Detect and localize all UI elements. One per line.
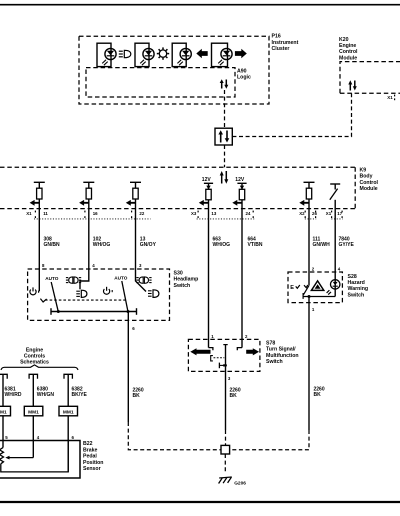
svg-text:Controls: Controls [24,354,45,360]
svg-text:Control: Control [339,49,358,55]
svg-text:2: 2 [245,334,248,339]
svg-text:X1: X1 [26,211,32,216]
svg-text:22: 22 [139,211,144,216]
svg-text:12V: 12V [235,177,245,183]
svg-text:AUTO: AUTO [114,275,128,280]
svg-text:Multifunction: Multifunction [266,353,299,359]
svg-text:Cluster: Cluster [272,46,290,52]
svg-text:26: 26 [312,211,317,216]
svg-text:4: 4 [37,435,40,440]
svg-text:4: 4 [92,263,95,268]
svg-text:P16: P16 [272,34,281,40]
svg-text:X3: X3 [191,211,197,216]
svg-text:GN/OY: GN/OY [140,242,157,248]
svg-text:Module: Module [339,55,357,61]
svg-text:12V: 12V [202,177,212,183]
svg-text:11: 11 [43,211,48,216]
svg-text:Logic: Logic [237,75,251,81]
svg-text:WH/GN: WH/GN [37,392,55,398]
svg-text:AUTO: AUTO [45,276,59,281]
svg-text:BK: BK [314,392,322,398]
svg-text:3: 3 [228,376,231,381]
svg-text:6: 6 [132,326,135,331]
svg-text:E: E [290,285,294,291]
svg-text:Sensor: Sensor [83,466,101,472]
svg-text:BK: BK [230,393,238,399]
svg-text:S78: S78 [266,340,275,346]
svg-text:Warning: Warning [348,286,369,292]
svg-text:1: 1 [312,307,315,312]
svg-text:WH/OG: WH/OG [213,242,231,248]
svg-text:GN/BN: GN/BN [44,242,61,248]
svg-text:8: 8 [42,263,45,268]
svg-text:MM1: MM1 [63,409,74,415]
svg-text:K9: K9 [360,168,367,174]
svg-text:S28: S28 [348,274,357,280]
svg-text:Instrument: Instrument [272,40,299,46]
svg-text:GN/WH: GN/WH [313,242,331,248]
svg-text:3: 3 [139,263,142,268]
svg-text:24: 24 [246,211,251,216]
svg-text:4: 4 [338,266,341,271]
svg-text:Schematics: Schematics [20,360,49,366]
svg-text:WH/RD: WH/RD [5,392,22,398]
svg-text:VT/BN: VT/BN [248,242,263,248]
svg-text:Engine: Engine [339,43,356,49]
svg-text:MM1: MM1 [0,409,7,415]
svg-text:Module: Module [360,186,378,192]
svg-text:X2: X2 [299,211,305,216]
svg-text:G206: G206 [234,480,246,486]
svg-text:2: 2 [312,266,315,271]
svg-text:Hazard: Hazard [348,280,365,286]
svg-text:Pedal: Pedal [83,454,97,460]
svg-text:6: 6 [72,435,75,440]
svg-text:Brake: Brake [83,447,98,453]
svg-text:X1: X1 [387,95,393,100]
svg-text:Headlamp: Headlamp [174,277,199,283]
svg-text:BK/YE: BK/YE [72,392,88,398]
svg-text:Engine: Engine [26,347,43,353]
svg-text:GY/YE: GY/YE [339,242,355,248]
svg-text:B22: B22 [83,441,93,447]
svg-text:A90: A90 [237,69,247,75]
svg-text:BK: BK [133,393,141,399]
svg-text:Switch: Switch [348,292,365,298]
svg-text:Switch: Switch [174,283,191,289]
svg-text:X1: X1 [326,211,332,216]
svg-text:K20: K20 [339,37,349,43]
svg-text:Turn Signal/: Turn Signal/ [266,347,296,353]
svg-text:WH/OG: WH/OG [93,242,111,248]
svg-text:S30: S30 [174,271,183,277]
svg-text:Control: Control [360,180,379,186]
svg-text:13: 13 [211,211,216,216]
svg-text:Body: Body [360,174,373,180]
svg-text:1: 1 [211,334,214,339]
svg-text:5: 5 [5,435,8,440]
svg-text:Position: Position [83,460,103,466]
svg-text:Switch: Switch [266,359,283,365]
svg-text:16: 16 [93,211,98,216]
svg-text:MM1: MM1 [28,409,39,415]
svg-text:17: 17 [337,211,342,216]
